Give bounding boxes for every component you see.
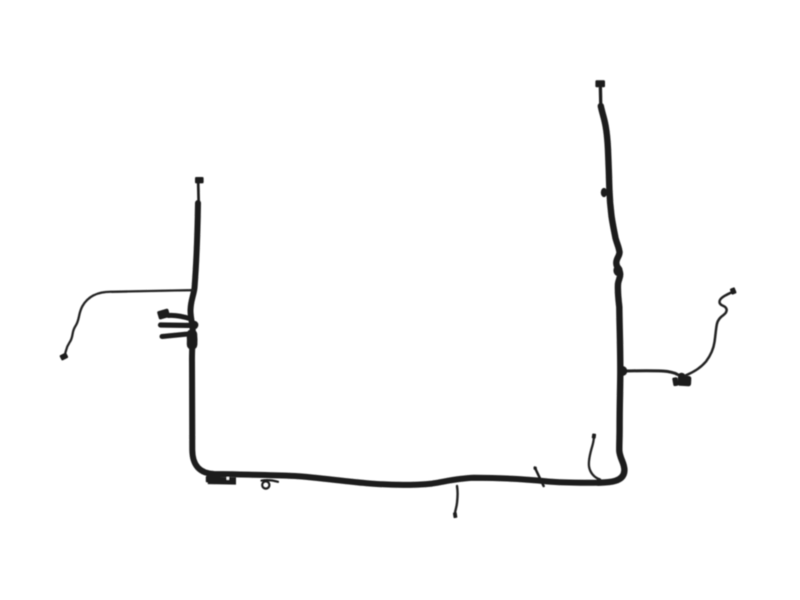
right branch root bulge: [618, 366, 628, 376]
left stem: [197, 183, 200, 204]
left tube almond bulge: [187, 335, 198, 345]
right stub wire: [589, 438, 600, 480]
upper loop arm: [169, 315, 192, 319]
center drop wire: [455, 486, 458, 513]
left thin branch wire: [65, 290, 194, 355]
right cap fitting: [595, 80, 605, 87]
lower loop arm: [162, 334, 193, 337]
right branch connector body: [677, 375, 691, 386]
left tube knot bump: [189, 321, 198, 330]
right wire end connector: [730, 287, 737, 295]
cable tie head: [534, 467, 537, 470]
cable tie clip: [535, 468, 544, 487]
left cap fitting: [195, 177, 204, 183]
bracket notch: [227, 477, 229, 480]
connector top bump: [678, 373, 685, 379]
P-clip ring: [262, 481, 269, 488]
right branch curved wire: [686, 292, 732, 375]
right tube side nub clip: [601, 188, 607, 197]
P-clip tab: [262, 480, 279, 482]
right branch horizontal wire: [622, 371, 678, 375]
bottom bracket: [208, 477, 236, 485]
right vertical tube: [598, 106, 624, 483]
middle loop arm: [161, 322, 196, 328]
left wire end connector: [59, 352, 68, 361]
right tube knot (kink wrap): [613, 265, 622, 276]
upper arm connector: [157, 308, 171, 319]
right branch connector collar: [672, 377, 679, 386]
stub wire connector tip: [592, 433, 597, 438]
right stem: [599, 88, 603, 107]
drop wire connector: [453, 512, 458, 518]
main tube run (left vertical + bottom horizontal): [190, 203, 601, 485]
bracket lip: [206, 476, 213, 482]
